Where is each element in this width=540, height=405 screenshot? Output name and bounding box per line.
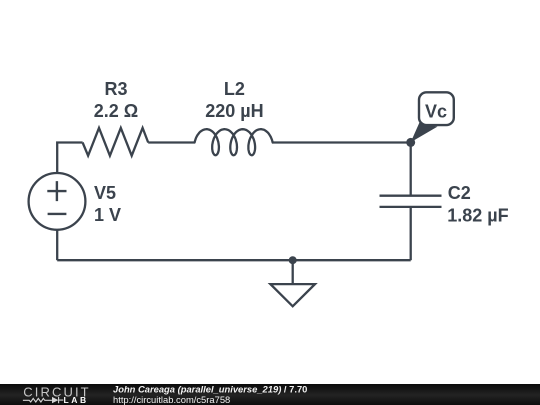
wire R3 to L2 [148, 141, 194, 143]
Vc flag tail [411, 123, 438, 143]
logo resistor squiggle [23, 398, 52, 402]
ground junction dot [289, 256, 297, 264]
svg-text:http://circuitlab.com/c5ra758: http://circuitlab.com/c5ra758 [113, 394, 230, 405]
V5 plus sign [47, 181, 66, 201]
logo diode triangle [52, 397, 58, 403]
wire bottom rail [57, 259, 411, 261]
ground symbol [270, 284, 315, 306]
wire node down to C2 top plate [410, 143, 412, 196]
Vc flag box [419, 92, 454, 125]
inductor L2 [195, 129, 273, 155]
resistor R3 [83, 128, 149, 156]
voltage source V5 circle [29, 173, 86, 230]
ground stub wire [292, 260, 294, 284]
wire L2 to node Vc [272, 141, 410, 143]
wire V5 bottom terminal [56, 230, 58, 260]
footer bar [0, 384, 540, 405]
wire C2 bottom plate down to bottom-right corner [410, 207, 412, 260]
svg-text:LAB: LAB [64, 395, 89, 405]
capacitor C2 bottom plate [380, 206, 442, 208]
capacitor C2 top plate [380, 195, 442, 197]
wire left-top: V5 top terminal up and right to R3 [57, 143, 82, 174]
logo diode bar and wire [59, 397, 64, 403]
V5 minus sign [48, 213, 67, 215]
node junction dot at Vc [406, 138, 415, 147]
